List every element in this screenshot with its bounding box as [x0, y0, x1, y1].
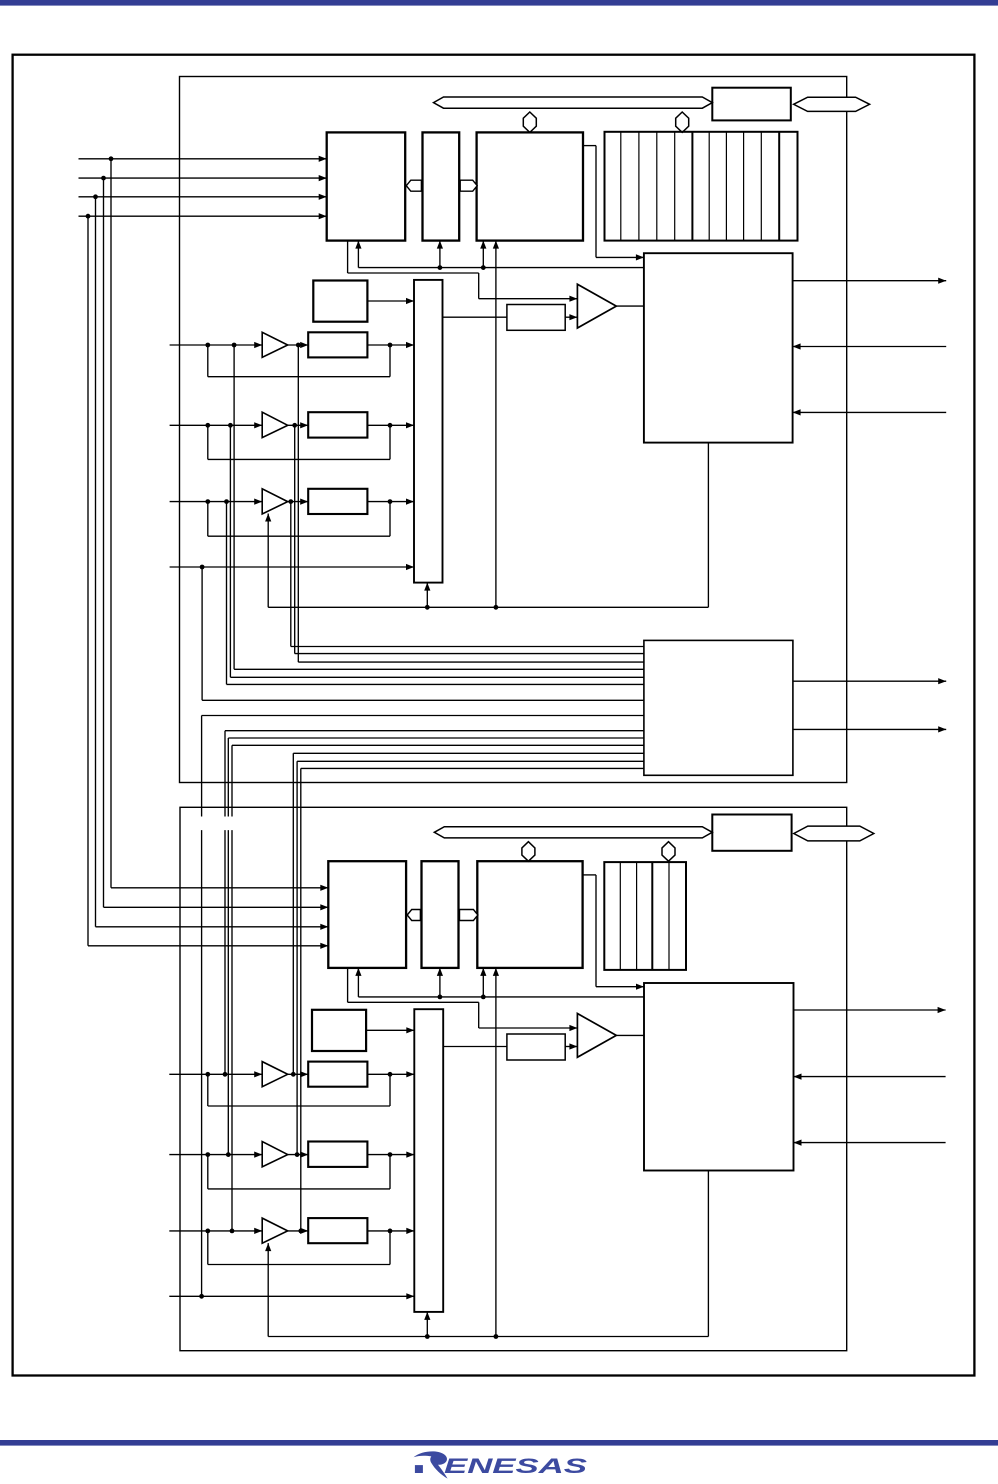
- edge 3 vertical to interrupt block: [290, 502, 292, 647]
- connector TCR-TIOR: [406, 180, 421, 191]
- channel-0 unit boundary frame: [180, 77, 847, 783]
- clock TCLKB feed into channel-1 control: [104, 906, 329, 908]
- channel-1 module data bus arrow: [794, 826, 874, 841]
- channel-1 edge detector buffer 2: [262, 1142, 288, 1167]
- clock input TCLKA wire: [79, 158, 327, 160]
- gate signal wire under selector: [267, 514, 269, 608]
- feedback loop 3 wire: [207, 502, 209, 537]
- comparator (compare match): [577, 284, 616, 328]
- noise canceler register 2: [308, 412, 367, 437]
- interrupt block to channel-1 link 6: [297, 760, 644, 762]
- channel-1 internal bus feed wire: [358, 996, 644, 998]
- channel-1 edge detector 2 output wire: [288, 1154, 309, 1156]
- channel-0 input capture pin wire 1: [793, 346, 947, 348]
- channel-1 clock edge input 1 wire: [169, 1073, 262, 1075]
- interrupt output wire 2: [793, 728, 946, 730]
- prescaler control output wire: [367, 300, 414, 302]
- channel-0 clock edge input 1 wire: [170, 344, 263, 346]
- gate junction at TCNT: [494, 605, 499, 610]
- feedback loop 1 wire: [207, 345, 209, 377]
- block TIOR: [423, 132, 460, 240]
- module data bus arrow: [794, 97, 870, 111]
- interrupt block to channel-1 link 7: [301, 767, 644, 769]
- input 2 vertical to interrupt block: [229, 425, 231, 677]
- channel-1 bus interface block: [712, 815, 791, 851]
- block TGRA-TGRD register file: [605, 132, 798, 241]
- channel-1 edge detector 3 output wire: [288, 1230, 309, 1232]
- channel-1 noise canceler 3 output wire: [367, 1230, 414, 1232]
- channel-1 noise canceler 1 output wire: [367, 1073, 414, 1075]
- channel-1 TCR to comparator wire: [347, 968, 349, 1002]
- channel-1 TGR to comparator wire: [565, 1046, 577, 1048]
- channel-1 prescaler output wire: [366, 1029, 414, 1031]
- bus feed arrow into TCR block: [357, 241, 359, 268]
- connector TIOR-TCNT: [460, 180, 477, 191]
- noise canceler 3 output wire: [367, 501, 414, 503]
- channel-1 bus feed junction TIOR: [438, 995, 443, 1000]
- Renesas logo: [414, 1451, 589, 1478]
- bus interface block: [712, 88, 791, 121]
- channel-1 clock edge input 2 wire: [169, 1154, 262, 1156]
- bus feed junction at TIOR: [438, 265, 443, 270]
- input 1 vertical to interrupt block: [233, 345, 235, 669]
- bus connector to TCNT: [523, 112, 536, 132]
- block TCNT counter: [477, 132, 583, 240]
- interrupt request block: [644, 640, 793, 775]
- channel-1 input capture wire 1: [794, 1076, 946, 1078]
- channel-1 gate input wire: [169, 1295, 414, 1297]
- channel-1 TGR register file: [604, 862, 686, 970]
- channel-1 prescaler control block: [312, 1010, 366, 1051]
- clock TCLKD feed into channel-1 control: [88, 945, 328, 947]
- register file divider 5: [708, 132, 710, 241]
- channel-1 connector TCR-TIOR: [407, 910, 420, 921]
- channel-1 TCR/TMDR block: [328, 861, 406, 968]
- noise canceler 2 output wire: [367, 424, 414, 426]
- edge detector 2 output wire: [288, 424, 309, 426]
- internal bus: [434, 97, 713, 108]
- channel-1 gate signal wire: [267, 1243, 269, 1336]
- channel-1 register group divider: [651, 862, 653, 970]
- channel-1 clock edge input 3 wire: [169, 1230, 262, 1232]
- register file divider 2: [638, 132, 640, 241]
- feedback loop 2 wire: [207, 425, 209, 459]
- edge 1 vertical to interrupt block: [297, 345, 299, 662]
- noise canceler register 3: [308, 489, 367, 514]
- noise canceler register 1: [308, 332, 367, 357]
- input 3 vertical to interrupt block: [226, 502, 228, 685]
- channel-1 register divider 2: [636, 862, 638, 970]
- gate input link to interrupt block: [201, 567, 203, 700]
- channel-1 bus connector to TCNT: [522, 842, 535, 862]
- channel-1 register divider 3: [668, 862, 670, 970]
- channel-0 clock edge input 2 wire: [170, 424, 263, 426]
- block TCR/TMDR control registers: [327, 132, 406, 240]
- page bottom blue rule: [0, 1440, 998, 1446]
- register file divider 1: [620, 132, 622, 241]
- clock TCLKA vertical to channel-1: [110, 159, 112, 888]
- interrupt block to channel-1 link 2: [225, 730, 644, 732]
- TCNT to TGR wire: [443, 316, 507, 318]
- clock input TCLKC wire: [79, 196, 327, 198]
- channel-1 comparator: [577, 1014, 616, 1058]
- channel-1 noise canceler register 1: [308, 1062, 367, 1087]
- channel-1 clock selector block: [414, 1009, 443, 1312]
- clock input TCLKD wire: [79, 215, 327, 217]
- channel-1 gate junction at TCNT: [494, 1334, 499, 1339]
- channel-0 output pin wire: [793, 280, 947, 282]
- channel-1 TCNT block: [477, 861, 582, 968]
- TGR compare register: [507, 305, 565, 331]
- channel-1 noise canceler 2 output wire: [367, 1154, 414, 1156]
- channel-1 bus connector to TGR: [662, 842, 675, 862]
- counter clock selector block: [414, 280, 443, 583]
- channel-1 noise canceler register 3: [308, 1218, 367, 1243]
- channel-0 clock edge input 3 wire: [170, 501, 263, 503]
- channel-0 gate input wire: [170, 566, 414, 568]
- channel-1 TCNT overflow wire: [583, 874, 596, 876]
- bus connector to TGR registers: [676, 112, 689, 132]
- clock TCLKA feed into channel-1 control: [111, 887, 328, 889]
- prescaler control block: [313, 281, 367, 322]
- page top blue bar: [0, 0, 998, 6]
- interrupt block to channel-1 link 5: [293, 752, 644, 754]
- bus feed junction at TCNT: [481, 265, 486, 270]
- channel-1 bus feed junction TCNT: [481, 995, 486, 1000]
- noise canceler 1 output wire: [367, 344, 414, 346]
- channel-1 comparator output wire: [616, 1034, 644, 1036]
- interrupt block to channel-1 link 3: [228, 737, 644, 739]
- channel-1 feedback loop 3 wire: [207, 1231, 209, 1265]
- register file divider 4: [674, 132, 676, 241]
- TGR to comparator wire: [565, 316, 577, 318]
- channel-1 TIOR block: [422, 861, 459, 968]
- edge detector buffer 1: [262, 332, 288, 357]
- internal bus feed wire: [358, 267, 644, 269]
- channel-1 TGR compare register: [507, 1034, 565, 1060]
- channel-1 control logic bottom wire: [707, 1171, 709, 1337]
- channel-1 register divider 1: [619, 862, 621, 970]
- channel-1 unit boundary frame: [180, 807, 847, 1350]
- channel-1 output pin wire: [794, 1009, 946, 1011]
- TCR to comparator wire: [347, 241, 349, 273]
- control logic bottom wire: [707, 443, 709, 608]
- edge 2 vertical to interrupt block: [294, 425, 296, 653]
- channel-1 bus feed arrow into TCR: [357, 968, 359, 997]
- interrupt block to channel-1 link 1: [202, 715, 644, 717]
- timer control logic block: [644, 253, 793, 442]
- channel-1 timer control logic block: [644, 983, 794, 1171]
- register file divider 8: [760, 132, 762, 241]
- channel-1 noise canceler register 2: [308, 1142, 367, 1167]
- channel-1 edge detector buffer 1: [262, 1062, 288, 1087]
- edge detector 3 output wire: [288, 501, 309, 503]
- svg-text:ENESAS: ENESAS: [444, 1454, 588, 1478]
- interrupt output wire 1: [793, 680, 946, 682]
- clock TCLKC feed into channel-1 control: [96, 926, 329, 928]
- edge detector 1 output wire: [288, 344, 309, 346]
- channel-1 edge detector 1 output wire: [288, 1073, 309, 1075]
- channel-1 input capture wire 2: [794, 1142, 946, 1144]
- edge detector buffer 3: [262, 489, 288, 514]
- channel-1 internal bus: [434, 827, 712, 838]
- channel-1 edge detector buffer 3: [262, 1218, 288, 1243]
- channel-1 feedback loop 2 wire: [207, 1155, 209, 1189]
- clock input TCLKB wire: [79, 177, 327, 179]
- channel-1 TCNT to TGR wire: [443, 1046, 507, 1048]
- channel-0 input capture pin wire 2: [793, 411, 947, 413]
- clock TCLKC vertical to channel-1: [95, 197, 97, 927]
- TCNT overflow wire to control logic: [583, 145, 596, 147]
- channel-1 connector TIOR-TCNT: [460, 910, 478, 921]
- register file group divider A: [691, 132, 693, 241]
- gate junction at selector: [425, 605, 430, 610]
- interrupt block to channel-1 link 4: [232, 744, 644, 746]
- edge detector buffer 2: [262, 412, 288, 437]
- register file divider 3: [656, 132, 658, 241]
- comparator output wire: [616, 305, 644, 307]
- register file divider 7: [743, 132, 745, 241]
- register file divider 6: [725, 132, 727, 241]
- channel-1 feedback loop 1 wire: [207, 1074, 209, 1106]
- channel-1 gate junction at selector: [425, 1334, 430, 1339]
- clock TCLKD vertical to channel-1: [87, 216, 89, 946]
- register file group divider B: [778, 132, 780, 241]
- clock TCLKB vertical to channel-1: [103, 178, 105, 907]
